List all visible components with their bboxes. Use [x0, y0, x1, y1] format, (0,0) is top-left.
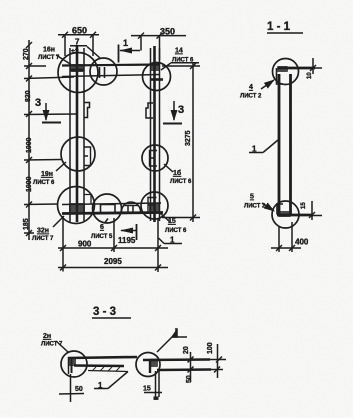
detail circle mid-right [142, 145, 168, 171]
detail circle bottom-left [58, 187, 95, 224]
section 1-1 bottom flange [277, 201, 322, 220]
detail circle bottom-middle [93, 194, 122, 223]
section 1-1 web lines [279, 74, 291, 214]
leader 14 list6 [161, 63, 199, 70]
leader 19N list6 [56, 162, 66, 171]
leader 2N list7 [56, 341, 68, 352]
part label 1 leader section 1-1 [249, 140, 278, 153]
leader 32N list7 [53, 216, 64, 227]
weld dash inside top-right circle [150, 78, 163, 81]
section 3-3 leg down right [144, 371, 162, 400]
section 3-3 right top plate [143, 357, 226, 363]
tick y78.5 + extension to circle [24, 77, 74, 79]
label 7 over ±2 callout [70, 46, 100, 58]
section 3-3 title underline [92, 317, 131, 319]
top member horizontal lines [62, 65, 160, 77]
leader 15 list6 [160, 213, 170, 222]
section 3-3 left angle corner [68, 357, 137, 374]
junction blobs [68, 64, 291, 367]
section 1-1 bottom circle [272, 201, 299, 228]
tick y66 + extension [24, 65, 46, 67]
section 1-1 top angle [277, 68, 284, 84]
section 1-1 top flange [278, 58, 322, 74]
hatch on left plate [92, 367, 120, 371]
leader 1B list6 [164, 164, 173, 172]
leader 6 list5 [105, 219, 108, 223]
splice bracket inside mid-right circle [150, 151, 158, 167]
tab inside bottom-left circle [84, 195, 91, 205]
splice bracket inside mid-left circle [84, 147, 91, 166]
leader 5 list2 [262, 203, 274, 211]
section marker 3 left [42, 103, 61, 123]
part label 1 leader section 3-3 [94, 372, 128, 389]
tick y233 [26, 230, 32, 236]
detail circle mid-left [61, 137, 95, 171]
section marker 1 bottom [120, 224, 137, 240]
bracket inside bottom-right circle [148, 197, 157, 214]
detail circle top-right [143, 63, 171, 91]
weld strokes inside top-middle circle [100, 67, 105, 78]
detail circle bottom-right [141, 192, 168, 219]
right member vertical lines [151, 46, 160, 222]
leader 16N list7 [56, 55, 71, 65]
weld mark inside top-left circle [70, 69, 84, 72]
tick y204.5 + extension [24, 203, 58, 206]
dimension 650 top [58, 32, 99, 56]
left member vertical lines [70, 46, 84, 222]
notch tab on right member [146, 103, 153, 118]
dimension 400 section 1-1 [271, 222, 301, 252]
tick y113 + extension [24, 113, 76, 116]
dimension 50 section 3-3 left [59, 374, 84, 402]
section marker 1 top [119, 45, 141, 63]
section 3-3 right bottom plate [157, 367, 223, 373]
table mark inside bottom-middle circle [101, 205, 116, 214]
bottom member horizontal lines [62, 203, 163, 214]
section 1-1 bottom angle [277, 203, 283, 215]
vertical dim line right of section 3-3 [188, 344, 218, 382]
detail circle top-left [58, 53, 98, 93]
notch tab on left member [84, 103, 90, 118]
bottom dimension line 900 / 1195 [58, 216, 168, 272]
corner mark inside right circle [150, 360, 157, 373]
section marker 3 right [163, 101, 182, 124]
section 1-1 title underline [267, 32, 303, 34]
leader 4 list2 [261, 80, 274, 89]
section 1-1 top circle [273, 59, 299, 85]
bottom dimension line 2095 [58, 252, 168, 272]
right dimension 3275 [162, 63, 200, 222]
section 3-3 left circle [61, 351, 87, 377]
tick y45 [26, 42, 32, 48]
tick y160 + extension [24, 159, 61, 162]
left dimension chain line [24, 40, 76, 240]
small weld semicircle on bottom member [122, 202, 141, 211]
part label 1 leader bottom right [159, 238, 183, 244]
edge smudges [0, 0, 1, 1]
dimension 350 top [131, 33, 186, 60]
section 3-3 right circle [136, 353, 160, 377]
weld flag leader section 3-3 [157, 328, 187, 352]
detail circle top-middle [90, 58, 117, 85]
